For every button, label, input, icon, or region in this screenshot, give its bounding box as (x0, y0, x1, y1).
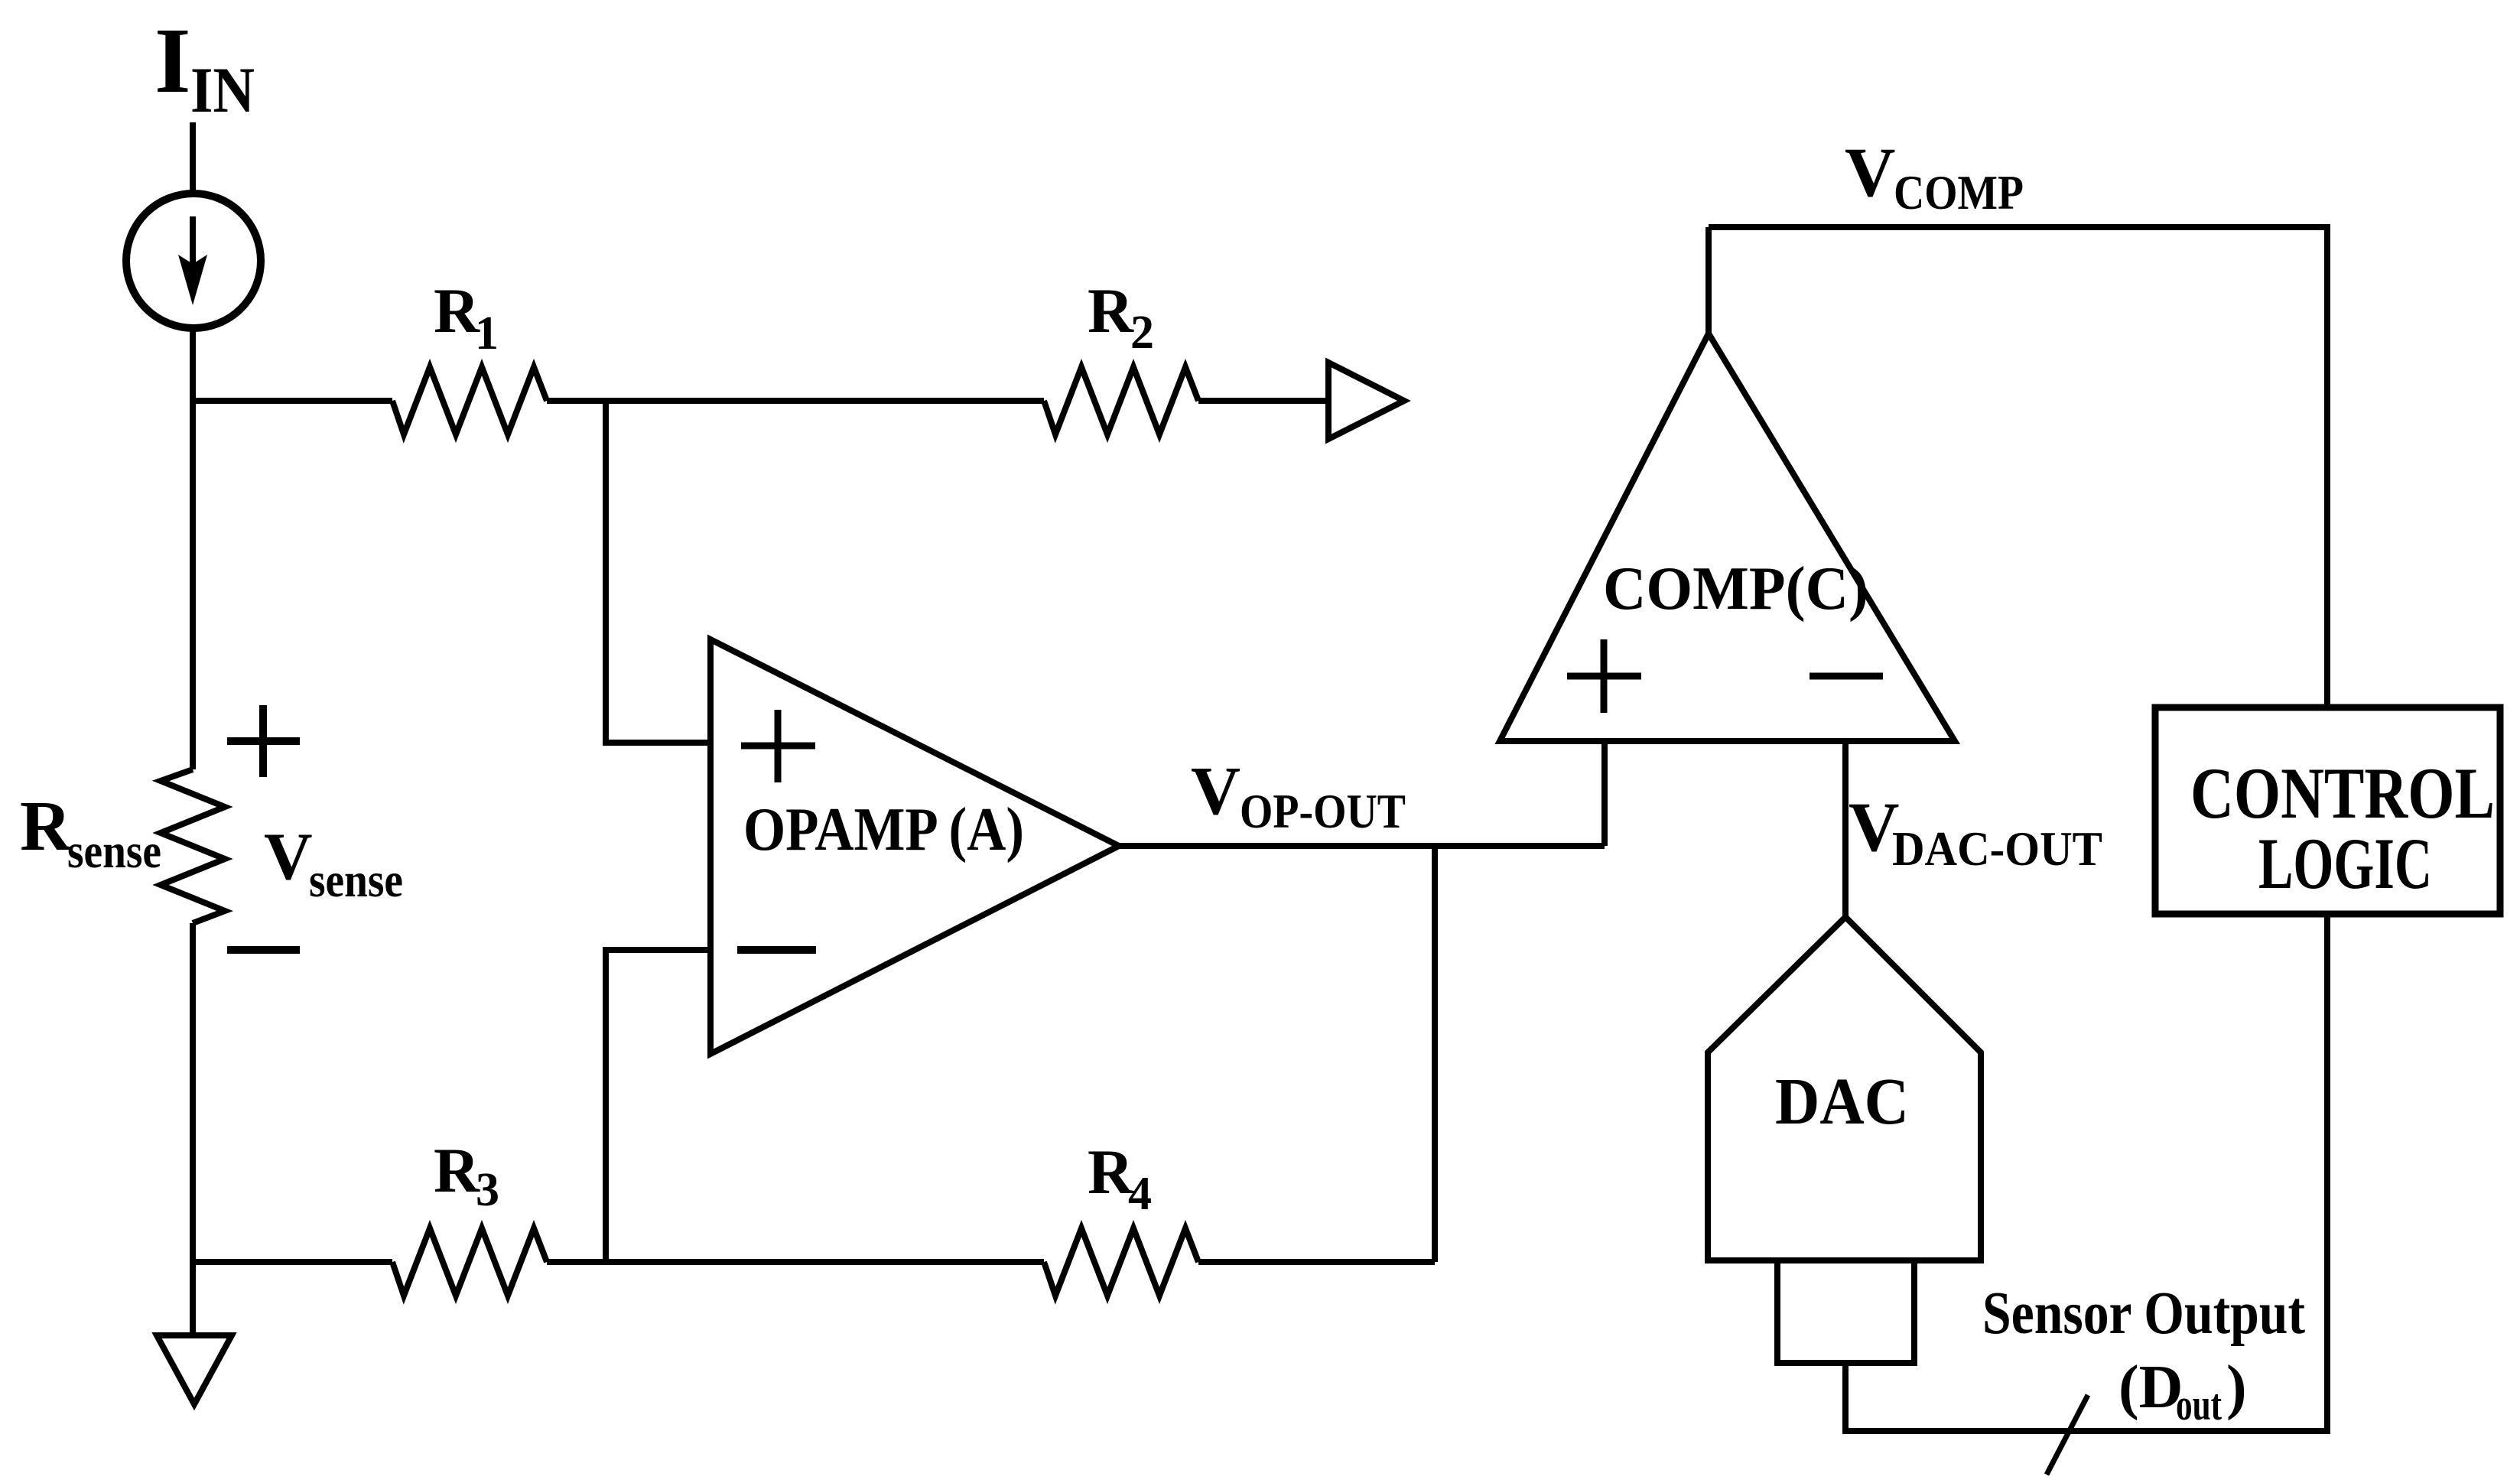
comparator + symbol (1567, 639, 1641, 713)
op-amp - symbol (737, 946, 816, 954)
DAC body (1708, 917, 1981, 1260)
svg-text:DAC: DAC (1775, 1064, 1909, 1138)
svg-text:V: V (264, 820, 313, 894)
wire node to opamp - input (606, 950, 707, 1262)
wire comparator + input pin (1601, 741, 1608, 846)
current source arrow (190, 216, 196, 265)
output arrow terminal (1328, 363, 1404, 439)
wire R2 to output arrow (1198, 398, 1328, 404)
comparator - symbol (1810, 673, 1883, 680)
wire VCOMP to control logic (1709, 227, 2327, 707)
svg-text:Sensor Output: Sensor Output (1982, 1280, 2305, 1347)
svg-text:2: 2 (1130, 307, 1154, 359)
wire top node to R1 (193, 398, 392, 404)
svg-text:out: out (2176, 1380, 2222, 1429)
svg-text:IN: IN (190, 54, 255, 126)
svg-text:I: I (154, 9, 190, 112)
svg-text:1: 1 (475, 307, 499, 359)
svg-text:V: V (1191, 753, 1240, 829)
wire sensor output bus (1845, 914, 2327, 1431)
svg-text:V: V (1845, 133, 1895, 211)
resistor R3 (392, 1228, 547, 1296)
svg-text:(D: (D (2118, 1354, 2183, 1421)
wire comparator - input pin (1842, 741, 1849, 917)
svg-text:R: R (1088, 1137, 1134, 1207)
wire Rsense to ground (190, 923, 196, 1335)
resistor R2 (1044, 367, 1198, 434)
svg-text:LOGIC: LOGIC (2258, 823, 2432, 904)
svg-text:sense: sense (67, 824, 161, 878)
svg-text:R: R (434, 275, 480, 346)
bus slash mark (2047, 1395, 2088, 1475)
comparator C triangle (1500, 333, 1955, 741)
resistor R4 (1044, 1228, 1198, 1296)
wire R3 to R4 (547, 1259, 1044, 1265)
Vsense minus symbol (227, 946, 300, 954)
Vsense plus symbol (227, 705, 300, 777)
DAC bottom connector (1777, 1260, 1914, 1363)
wire from source down to Rsense (190, 328, 196, 769)
svg-text:sense: sense (309, 853, 403, 907)
svg-text:R: R (20, 787, 72, 866)
node IIN input stub wire (190, 122, 196, 194)
svg-text:3: 3 (476, 1164, 499, 1216)
svg-text:COMP(C): COMP(C) (1603, 555, 1868, 623)
current source I_IN circle (126, 194, 261, 328)
resistor R1 (392, 367, 547, 434)
svg-text:OP-OUT: OP-OUT (1240, 785, 1406, 838)
wire opamp output (1119, 843, 1605, 849)
svg-text:COMP: COMP (1894, 166, 2024, 220)
ground (157, 1335, 232, 1404)
svg-text:R: R (1088, 275, 1134, 346)
wire node to opamp + input (606, 401, 707, 743)
svg-text:OPAMP (A): OPAMP (A) (743, 796, 1024, 863)
control logic box (2155, 707, 2500, 914)
wire feedback from output down to R4 (1432, 846, 1438, 1262)
wire bottom node to R3 (193, 1259, 392, 1265)
op-amp + symbol (741, 710, 815, 782)
wire R1 to R2 (547, 398, 1044, 404)
wire R4 to feedback junction (1198, 1259, 1435, 1265)
op-amp U1 triangle (710, 639, 1119, 1054)
svg-text:): ) (2226, 1354, 2247, 1421)
svg-text:CONTROL: CONTROL (2190, 753, 2495, 834)
svg-text:DAC-OUT: DAC-OUT (1892, 822, 2102, 876)
svg-text:R: R (434, 1135, 480, 1205)
svg-text:4: 4 (1128, 1168, 1152, 1220)
resistor Rsense (161, 769, 225, 923)
wire comparator apex to VCOMP (1705, 227, 1712, 333)
